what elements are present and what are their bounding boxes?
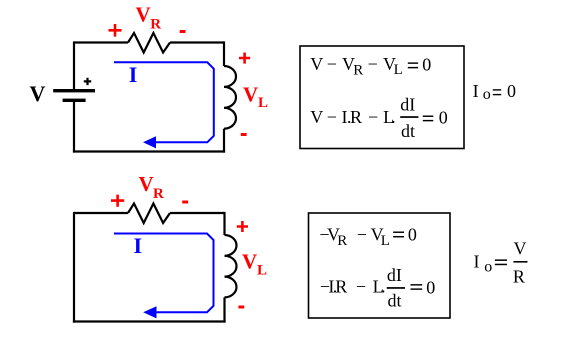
polarity - at inductor bottom (bottom circuit) [238,306,244,309]
battery V (top circuit): short plate [63,99,86,102]
current loop I wire (bottom circuit) [114,234,214,313]
result: Io = V/R [474,239,528,287]
wire: bottom circuit, top side right segment [170,212,225,214]
polarity + at inductor top (bottom circuit) [237,221,248,232]
svg-text:Io0: Io0 [473,81,516,103]
battery + terminal mark [84,78,91,85]
wire: bottom circuit, right side upper segment [223,212,225,235]
svg-text:V: V [242,250,257,274]
svg-text:dt: dt [401,121,415,141]
wire: top circuit, left side upper segment [73,41,75,90]
resistor R (top circuit) [128,33,170,53]
svg-text:dI: dI [387,265,402,285]
svg-text:I: I [134,233,143,258]
svg-text:L: L [257,263,267,279]
svg-text:dI: dI [400,94,415,114]
svg-text:dt: dt [388,291,402,311]
polarity + at inductor top (top circuit) [239,53,250,64]
wire: bottom circuit, right side lower segment [223,297,225,322]
svg-text:R: R [513,267,525,287]
wire: bottom circuit, left side [73,212,75,323]
svg-text:R: R [150,17,161,33]
svg-text:Io: Io [474,252,493,276]
arrowhead of current loop (top circuit) [143,136,156,148]
svg-text:L: L [258,95,268,111]
equation: V - I.R - L.dI/dt = 0 [310,94,448,141]
polarity - at inductor bottom (top circuit) [241,133,247,136]
svg-text:−I.R−L.0: −I.R−L.0 [320,277,435,298]
equation: -VR - VL = 0 [319,224,417,249]
wire: top circuit, right side upper segment [223,41,225,66]
equation box (bottom) [309,213,451,318]
svg-text:I: I [129,62,138,87]
wire: top circuit, bottom side [73,150,225,152]
current loop I wire (top circuit) [114,62,214,142]
svg-text:V: V [139,172,154,196]
battery V (top circuit): long plate [53,89,95,92]
svg-text:R: R [153,186,164,202]
inductor L (top circuit) [224,66,236,129]
polarity - at resistor right (top circuit) [180,30,186,33]
wire: bottom circuit, bottom side [73,320,226,322]
svg-text:V: V [30,81,46,106]
wire: bottom circuit, top side left segment [74,212,128,214]
svg-text:V−VR−VL0: V−VR−VL0 [310,54,431,78]
svg-text:V−I.R−L.0: V−I.R−L.0 [310,107,448,127]
equation: V - VR - VL = 0 [310,54,431,78]
wire: top circuit, left side lower segment [73,102,75,153]
equation box (top) [300,46,464,149]
polarity + at resistor left (top circuit) [109,24,122,37]
inductor L (bottom circuit) [225,235,237,297]
svg-text:V: V [136,3,151,27]
wire: top circuit, top side left segment [74,41,128,43]
svg-text:V: V [243,83,258,107]
svg-text:V: V [514,239,527,259]
polarity - at resistor right (bottom circuit) [182,201,188,204]
arrowhead of current loop (bottom circuit) [143,306,156,318]
resistor R (bottom circuit) [128,204,170,224]
result: Io = 0 [473,81,516,103]
equation: -I.R - L.dI/dt = 0 [320,265,435,311]
polarity + at resistor left (bottom circuit) [111,195,124,207]
wire: top circuit, top side right segment [170,41,224,43]
wire: top circuit, right side lower segment [223,129,225,153]
